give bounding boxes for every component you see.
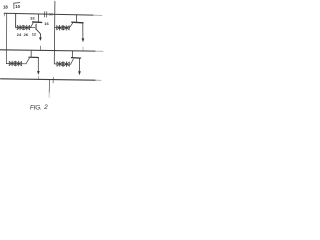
diode D5 (9, 61, 15, 66)
wire: base wire (top-right cell) (55, 27, 70, 29)
transistor Q4 top bar (71, 57, 80, 60)
wire: Q2 emitter tail to mid row line (82, 47, 84, 51)
wire: base wire (top-left cell) (16, 26, 35, 28)
wire: top row line faded right end (93, 14, 102, 16)
transistor Q3 collector riser (30, 51, 32, 57)
wire: Q1 emitter tail to mid row line (39, 46, 41, 50)
svg-text:10: 10 (15, 4, 20, 9)
wire: base wire (bottom-left cell) (7, 63, 27, 65)
transistor Q3 emitter arrowhead (37, 71, 40, 75)
label 10 leader line (14, 3, 20, 9)
transistor Q1 base bar (35, 24, 37, 29)
wire: stub below bottom row line (48, 80, 50, 92)
transistor Q1 base diagonal (30, 23, 33, 28)
diode D1 (17, 25, 23, 30)
transistor Q2 base diagonal (69, 23, 72, 28)
diode D2 (24, 25, 30, 30)
wire: top row line (4, 13, 93, 15)
diode D4 (63, 25, 69, 30)
wire: stub faded lower end (48, 92, 50, 97)
wire: junction tick on bottom row line (52, 77, 54, 83)
wire: base wire (bottom-right cell) (54, 63, 71, 65)
wire: column line 2 (53, 1, 56, 64)
diode D8 (64, 62, 70, 67)
transistor Q3 base diagonal (27, 58, 30, 62)
wire: mid row line (0, 50, 95, 51)
wire: column line 1 (5, 14, 7, 64)
transistor Q1 emitter arrowhead (39, 38, 42, 41)
tick pair on top row line (label 14 marks) (44, 12, 46, 17)
transistor Q3 emitter (37, 58, 39, 72)
transistor Q1 emitter (37, 30, 41, 38)
transistor Q2 top bar (72, 21, 83, 24)
wire: riser from top row line (top-left cell) (15, 14, 17, 28)
transistor Q1 collector riser (37, 14, 39, 22)
svg-text:18: 18 (3, 5, 8, 10)
wire: bottom row line (1, 79, 96, 80)
svg-text:16: 16 (44, 21, 49, 26)
svg-text:32: 32 (30, 15, 35, 20)
transistor Q2 emitter arrowhead (82, 38, 85, 42)
transistor Q4 base diagonal (71, 59, 74, 64)
diode D6 (16, 61, 22, 66)
wire: top row line left end tick (3, 13, 5, 16)
transistor Q4 emitter arrowhead (78, 71, 81, 75)
svg-text:FIG.: FIG. (30, 104, 42, 111)
svg-text:12: 12 (32, 31, 37, 36)
transistor Q2 emitter (82, 23, 84, 39)
svg-text:26: 26 (24, 32, 29, 37)
diode D7 (57, 62, 63, 67)
svg-text:2: 2 (43, 104, 48, 111)
transistor Q1 top bar (33, 21, 42, 24)
diode D3 (57, 25, 63, 30)
transistor Q3 top bar (29, 56, 38, 58)
svg-text:24: 24 (17, 32, 22, 37)
transistor Q4 collector riser (71, 51, 73, 57)
transistor Q4 emitter (78, 58, 80, 71)
transistor Q2 collector riser (76, 15, 78, 22)
wire: mid row line faded right end (95, 50, 103, 52)
wire: Q3 emitter tail to bottom row line (37, 76, 39, 79)
wire: bottom row line faded right end (95, 79, 101, 81)
